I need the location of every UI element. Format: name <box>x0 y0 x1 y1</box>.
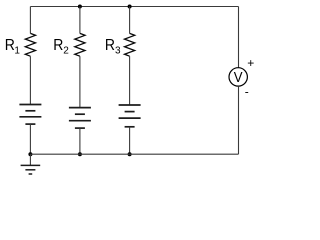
wire battery B1 to bottom rail <box>29 124 31 154</box>
resistor R3 <box>125 33 135 56</box>
wire R2 to battery B2 <box>79 56 81 107</box>
ground <box>21 165 41 174</box>
svg-text:1: 1 <box>14 45 20 56</box>
wire R1 to battery B1 <box>29 56 31 104</box>
node junction dot bottom R3 <box>128 152 132 156</box>
battery B2 <box>69 108 91 129</box>
svg-text:-: - <box>245 85 249 99</box>
node junction dot top R3 <box>128 5 132 9</box>
svg-text:2: 2 <box>63 45 69 56</box>
svg-text:3: 3 <box>115 45 121 56</box>
node junction dot top R2 <box>78 5 82 9</box>
svg-text:R: R <box>105 37 115 54</box>
svg-text:R: R <box>53 37 63 54</box>
wire R3 branch upper <box>129 7 131 34</box>
battery B3 <box>119 105 141 127</box>
resistor R1 <box>25 33 35 56</box>
wire ground stub <box>29 154 31 165</box>
wire R3 to battery B3 <box>129 56 131 105</box>
wire right side lower <box>238 86 240 154</box>
wire top rail <box>30 6 238 8</box>
svg-text:R: R <box>5 37 15 54</box>
voltmeter V1 <box>229 68 247 86</box>
wire battery B3 to bottom rail <box>129 127 131 154</box>
wire R2 branch upper <box>79 7 81 34</box>
svg-text:V: V <box>234 69 243 86</box>
wire battery B2 to bottom rail <box>79 128 81 154</box>
node junction dot bottom R2 <box>78 152 82 156</box>
wire left branch upper (R1 lead) <box>29 7 31 34</box>
svg-text:+: + <box>247 56 254 70</box>
wire bottom rail <box>30 153 238 155</box>
battery B1 <box>19 105 41 125</box>
wire right side upper <box>238 7 240 68</box>
node junction dot bottom-left <box>28 152 32 156</box>
resistor R2 <box>75 33 85 56</box>
